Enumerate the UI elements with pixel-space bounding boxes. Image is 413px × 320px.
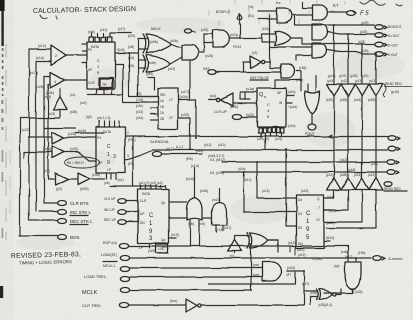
svg-text:(x17): (x17) <box>181 90 189 94</box>
svg-text:(B1): (B1) <box>248 14 254 18</box>
svg-text:K OUT: K OUT <box>388 53 398 57</box>
svg-text:(q2): (q2) <box>86 115 92 119</box>
svg-text:C: C <box>149 213 154 219</box>
svg-text:(x25): (x25) <box>216 171 224 175</box>
svg-text:(y23): (y23) <box>360 30 367 34</box>
svg-text:(u1b): (u1b) <box>238 167 245 171</box>
svg-text:F 5: F 5 <box>360 11 369 17</box>
svg-text:SEL: SEL <box>160 93 166 97</box>
svg-text:(cp): (cp) <box>334 264 340 268</box>
svg-text:(x18): (x18) <box>78 129 86 133</box>
svg-text:(x34): (x34) <box>287 266 295 270</box>
svg-text:(m2): (m2) <box>80 101 87 105</box>
svg-text:LOAD(5T): LOAD(5T) <box>101 253 117 257</box>
svg-text:(p22): (p22) <box>339 74 346 78</box>
svg-text:(x5): (x5) <box>136 92 142 96</box>
svg-text:UP: UP <box>140 212 144 216</box>
svg-text:Kc OUT: Kc OUT <box>388 34 399 38</box>
svg-text:IG,: IG, <box>210 170 215 175</box>
svg-text:(u1b): (u1b) <box>288 124 295 128</box>
svg-text:(s28): (s28) <box>340 173 347 177</box>
svg-text:(s29): (s29) <box>368 98 375 102</box>
svg-text:(x29): (x29) <box>70 147 78 151</box>
svg-text:DEC STK L: DEC STK L <box>70 219 93 224</box>
svg-text:C: C <box>107 144 111 150</box>
svg-text:(x7): (x7) <box>44 169 50 173</box>
svg-text:DN: DN <box>140 221 145 225</box>
svg-text:(u12): (u12) <box>297 248 304 252</box>
svg-text:(s4): (s4) <box>210 94 216 98</box>
svg-text:2: 2 <box>55 54 57 58</box>
svg-text:(r2): (r2) <box>252 51 257 55</box>
svg-text:DATA: DATA <box>142 192 151 196</box>
svg-text:CLR UP: CLR UP <box>214 110 228 114</box>
svg-text:(s20): (s20) <box>326 98 333 102</box>
svg-text:UP: UP <box>277 91 281 95</box>
svg-text:MCLK: MCLK <box>151 27 161 31</box>
svg-text:(x19): (x19) <box>148 249 155 253</box>
svg-text:(u1) (1) (u3) (u4): (u1) (1) (u3) (u4) <box>139 181 163 185</box>
svg-text:(x8): (x8) <box>128 45 134 49</box>
svg-text:Kc: Kc <box>276 0 281 5</box>
svg-text:(x14): (x14) <box>136 116 143 120</box>
svg-text:(x40): (x40) <box>146 72 153 76</box>
svg-text:(u6): (u6) <box>104 181 110 185</box>
svg-text:(y): (y) <box>230 254 234 258</box>
svg-text:+(u14): +(u14) <box>288 105 297 109</box>
svg-text:(u12): (u12) <box>204 143 211 147</box>
svg-text:(hor): (hor) <box>170 299 177 303</box>
svg-text:(x28): (x28) <box>68 132 76 136</box>
svg-text:(x33): (x33) <box>181 113 189 117</box>
svg-text:D4: D4 <box>298 198 302 202</box>
svg-text:INC UP: INC UP <box>104 208 115 212</box>
svg-text:(u17): (u17) <box>345 255 352 259</box>
svg-text:(u1a): (u1a) <box>246 87 254 91</box>
svg-text:(u13): (u13) <box>329 209 336 213</box>
svg-text:(u13,14): (u13,14) <box>257 137 269 141</box>
svg-text:(x1b): (x1b) <box>136 104 143 108</box>
svg-text:MCLK: MCLK <box>82 290 98 296</box>
svg-text:(u12): (u12) <box>244 178 251 182</box>
svg-text:(x12): (x12) <box>38 44 46 48</box>
svg-text:(x26): (x26) <box>205 54 213 58</box>
svg-text:(s21): (s21) <box>369 79 376 83</box>
svg-text:(r36): (r36) <box>299 66 306 70</box>
svg-text:3: 3 <box>127 154 129 158</box>
svg-text:(N13): (N13) <box>326 236 334 240</box>
svg-text:(x0): (x0) <box>199 222 205 226</box>
svg-text:C: C <box>267 102 270 107</box>
svg-text:(x6,2,1,3): (x6,2,1,3) <box>97 116 110 120</box>
svg-text:(x22): (x22) <box>246 113 254 117</box>
svg-text:(x33)(5,4): (x33)(5,4) <box>318 303 332 307</box>
svg-text:DATA: DATA <box>91 45 100 49</box>
svg-text:(x9): (x9) <box>128 64 134 68</box>
svg-text:(y13): (y13) <box>355 79 362 83</box>
svg-text:1B: 1B <box>160 105 164 109</box>
svg-text:(x12): (x12) <box>196 149 203 153</box>
svg-text:(x21): (x21) <box>371 162 378 166</box>
svg-text:TR: TR <box>102 83 107 87</box>
svg-text:C: C <box>97 58 100 63</box>
svg-text:(x11): (x11) <box>100 28 107 32</box>
svg-text:CLR TREL: CLR TREL <box>82 303 102 308</box>
svg-text:(s16): (s16) <box>354 98 361 102</box>
svg-text:(u2b): (u2b) <box>200 189 208 193</box>
svg-text:(x1f): (x1f) <box>168 67 175 71</box>
svg-text:BOSFLG: BOSFLG <box>216 10 230 14</box>
svg-text:4: 4 <box>54 80 56 84</box>
svg-text:(p21): (p21) <box>361 74 368 78</box>
svg-text:CLR BTS: CLR BTS <box>70 201 89 206</box>
svg-text:(x27): (x27) <box>30 71 38 75</box>
svg-text:Qb: Qb <box>161 201 165 205</box>
svg-text:(u17): (u17) <box>162 245 169 249</box>
svg-text:9: 9 <box>107 160 110 166</box>
svg-text:(x12): (x12) <box>340 158 347 162</box>
svg-text:(Rb): (Rb) <box>186 157 193 161</box>
svg-text:(L2b): (L2b) <box>230 105 238 109</box>
svg-text:(x31): (x31) <box>275 137 282 141</box>
svg-text:IO,: IO, <box>210 157 215 162</box>
svg-text:(s12): (s12) <box>368 173 375 177</box>
svg-text:(x2f): (x2f) <box>48 112 55 116</box>
svg-text:POUT: POUT <box>305 132 316 136</box>
svg-text:(y2): (y2) <box>56 187 62 191</box>
svg-text:(p24): (p24) <box>328 74 335 78</box>
svg-text:(x34): (x34) <box>180 95 188 99</box>
svg-text:(u13): (u13) <box>262 189 269 193</box>
svg-text:D OUT: D OUT <box>388 44 398 48</box>
svg-text:2B: 2B <box>160 117 164 121</box>
svg-text:(u14): (u14) <box>288 241 295 245</box>
svg-text:P0: P0 <box>88 48 92 52</box>
svg-text:F024: F024 <box>233 45 241 49</box>
svg-text:(x2b): (x2b) <box>310 291 317 295</box>
svg-text:(F1L): (F1L) <box>128 138 136 142</box>
svg-text:(x17): (x17) <box>118 27 125 31</box>
svg-text:LOAD TREL,: LOAD TREL, <box>84 274 107 279</box>
svg-text:(y12): (y12) <box>326 173 333 177</box>
svg-text:R6 = R5+1?: R6 = R5+1? <box>67 161 84 165</box>
svg-text:(m8): (m8) <box>88 30 95 34</box>
svg-text:(x15): (x15) <box>136 98 143 102</box>
svg-text:(u33): (u33) <box>355 290 362 294</box>
svg-text:ROP (m): ROP (m) <box>103 241 117 245</box>
svg-text:5 (u10): 5 (u10) <box>312 257 322 261</box>
svg-text:(x13): (x13) <box>262 27 269 31</box>
svg-text:INIT: INIT <box>203 67 210 71</box>
svg-text:(A30): (A30) <box>80 187 89 191</box>
svg-text:Qa: Qa <box>161 238 165 242</box>
svg-text:(x14): (x14) <box>191 164 199 168</box>
svg-text:(x5b): (x5b) <box>296 78 303 82</box>
svg-text:(u16): (u16) <box>301 189 308 193</box>
svg-text:(x10): (x10) <box>171 233 179 237</box>
svg-text:(M12): (M12) <box>216 158 225 162</box>
svg-text:(s13): (s13) <box>354 173 361 177</box>
svg-text:(u1b): (u1b) <box>288 90 295 94</box>
svg-text:(cm): (cm) <box>253 263 259 267</box>
svg-text:(x5b): (x5b) <box>150 40 158 44</box>
svg-text:1: 1 <box>107 152 110 158</box>
svg-text:(u12): (u12) <box>327 221 334 225</box>
svg-text:(x13): (x13) <box>136 110 143 114</box>
svg-text:(p29): (p29) <box>361 49 368 53</box>
svg-text:(x16): (x16) <box>186 177 194 181</box>
svg-text:(+34): (+34) <box>216 228 224 232</box>
svg-text:(x4b): (x4b) <box>148 61 156 65</box>
svg-text:(F0): (F0) <box>128 162 134 166</box>
svg-text:S-return: S-return <box>388 256 403 261</box>
svg-text:DEC UP: DEC UP <box>104 218 116 222</box>
svg-text:(x4f): (x4f) <box>44 95 51 99</box>
svg-text:K7: K7 <box>333 3 339 8</box>
svg-text:(p18): (p18) <box>348 168 355 172</box>
svg-text:a: a <box>264 95 266 99</box>
svg-text:READ REG.: READ REG. <box>385 82 403 86</box>
svg-text:(x3b): (x3b) <box>70 110 77 114</box>
svg-text:(x12): (x12) <box>341 79 348 83</box>
svg-text:7: 7 <box>318 206 320 210</box>
svg-text:SLENDVA: SLENDVA <box>150 139 169 144</box>
svg-text:(x27): (x27) <box>302 282 309 286</box>
svg-text:(p10): (p10) <box>391 90 399 94</box>
svg-text:LP: LP <box>107 168 111 172</box>
svg-text:(p25): (p25) <box>350 74 357 78</box>
svg-text:10: 10 <box>316 218 320 222</box>
svg-text:(u12): (u12) <box>298 253 305 257</box>
svg-text:(edt): (edt) <box>341 250 348 254</box>
svg-text:(x24): (x24) <box>230 33 238 37</box>
svg-text:(cm): (cm) <box>253 273 259 277</box>
svg-text:4F7: 4F7 <box>286 273 292 277</box>
svg-text:S(x6): S(x6) <box>117 48 125 52</box>
svg-text:(x1): (x1) <box>70 93 76 97</box>
svg-text:(u14): (u14) <box>327 195 334 199</box>
svg-text:(x23): (x23) <box>358 40 365 44</box>
svg-text:(x17): (x17) <box>166 147 174 151</box>
svg-text:UP: UP <box>88 68 92 72</box>
svg-text:+(u1): +(u1) <box>116 178 124 182</box>
svg-text:2: 2 <box>127 131 129 135</box>
svg-text:3: 3 <box>113 154 116 160</box>
svg-text:D3: D3 <box>298 212 302 216</box>
svg-text:MCLK-L: MCLK-L <box>103 264 116 268</box>
svg-text:(x26): (x26) <box>36 85 44 89</box>
svg-text:(u13): (u13) <box>218 143 225 147</box>
svg-text:CLR: CLR <box>140 199 147 203</box>
svg-text:(x17): (x17) <box>224 226 231 230</box>
svg-text:C: C <box>306 211 311 217</box>
svg-text:(x22): (x22) <box>22 128 30 132</box>
svg-text:(x4): (x4) <box>128 56 134 60</box>
svg-text:(x2b): (x2b) <box>170 39 178 43</box>
svg-text:CLR: CLR <box>88 81 95 85</box>
svg-text:(p23): (p23) <box>361 21 368 25</box>
svg-text:(m1): (m1) <box>44 147 51 151</box>
svg-text:BOS: BOS <box>70 235 80 240</box>
svg-text:(s26): (s26) <box>340 98 347 102</box>
svg-text:(y14): (y14) <box>327 79 334 83</box>
svg-text:(x6): (x6) <box>188 222 194 226</box>
svg-text:A L 2: A L 2 <box>176 145 183 149</box>
svg-text:BOSOUT,: BOSOUT, <box>388 25 402 29</box>
svg-text:(19b): (19b) <box>358 251 365 255</box>
svg-text:CLK UP: CLK UP <box>104 197 116 201</box>
svg-text:(t20): (t20) <box>128 34 135 38</box>
svg-text:(x15): (x15) <box>201 28 208 32</box>
svg-text:(x30): (x30) <box>92 173 100 177</box>
svg-text:INC STK L: INC STK L <box>70 210 92 215</box>
svg-text:(x1b): (x1b) <box>36 56 44 60</box>
svg-text:D2: D2 <box>298 226 302 230</box>
svg-text:(m21): (m21) <box>212 198 220 202</box>
